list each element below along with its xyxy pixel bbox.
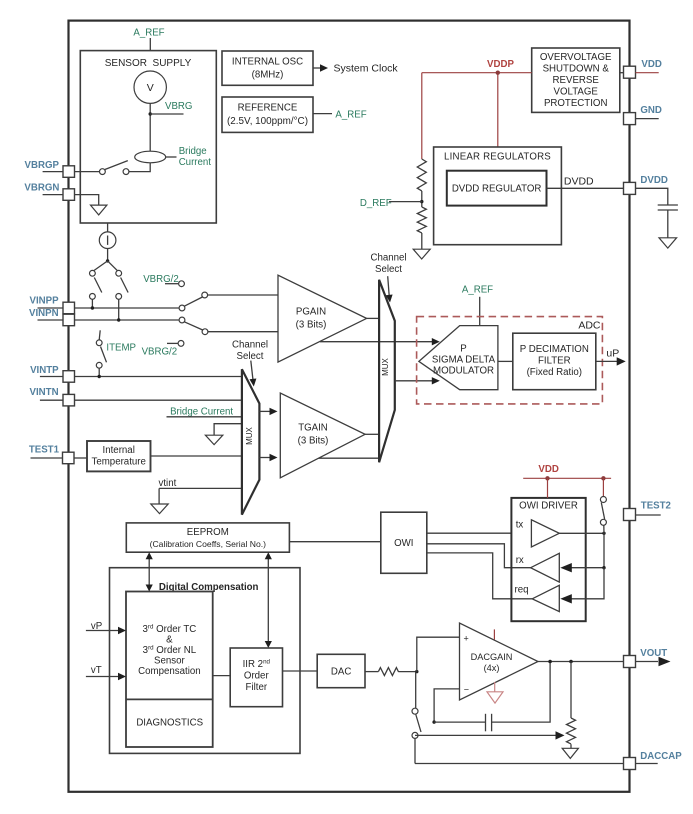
pin TEST1 xyxy=(29,444,74,463)
svg-text:DACGAIN: DACGAIN xyxy=(471,652,513,662)
block OWI xyxy=(381,512,427,573)
ground (vtint) xyxy=(151,488,168,513)
pin VINPP xyxy=(30,296,75,314)
svg-text:MUX: MUX xyxy=(245,426,254,444)
current source I xyxy=(99,223,116,249)
wire OWI tx out xyxy=(427,532,512,534)
svg-text:VINPP: VINPP xyxy=(30,296,60,307)
arrow EEPROM-IIR (double) xyxy=(265,552,272,648)
wire switch rail xyxy=(603,533,605,567)
wire EEPROM to OWI xyxy=(289,541,380,543)
svg-text:Order: Order xyxy=(244,671,270,682)
arrow EEPROM-compensation (double) xyxy=(146,552,153,591)
arrow MUX1 to TGAIN minus xyxy=(259,454,277,461)
block 3rd order compensation xyxy=(126,592,213,748)
wire system clock xyxy=(313,63,398,75)
svg-text:tx: tx xyxy=(516,520,524,531)
node VINTP junction xyxy=(98,375,101,378)
svg-text:VBRGN: VBRGN xyxy=(24,183,59,194)
switch S6 (TEST2) xyxy=(600,497,606,534)
svg-text:GND: GND xyxy=(640,105,662,116)
svg-text:uP: uP xyxy=(606,348,619,360)
wire DVDD to pin xyxy=(547,176,624,189)
svg-text:TEST1: TEST1 xyxy=(29,444,60,455)
node I split xyxy=(106,259,109,262)
svg-text:MODULATOR: MODULATOR xyxy=(433,366,494,377)
wire to PGAIN minus input xyxy=(208,331,278,333)
ground (sensor supply) xyxy=(91,205,107,215)
svg-text:VDD: VDD xyxy=(641,59,661,70)
wire modulator to filter xyxy=(498,360,513,362)
node D_REF xyxy=(360,198,424,209)
svg-text:SIGMA DELTA: SIGMA DELTA xyxy=(432,355,496,366)
wire VDD rail (OWI) xyxy=(523,464,611,498)
resistor R3 (DAC out) xyxy=(378,668,398,676)
svg-text:Bridge Current: Bridge Current xyxy=(170,406,233,417)
wire TGAIN out xyxy=(365,433,379,435)
wire PGAIN out xyxy=(367,317,380,319)
svg-text:REFERENCE: REFERENCE xyxy=(238,103,298,114)
svg-text:Sensor: Sensor xyxy=(154,656,185,667)
svg-text:P DECIMATION: P DECIMATION xyxy=(520,344,589,355)
svg-text:vT: vT xyxy=(91,665,102,676)
wire VBRGN to ground xyxy=(75,195,99,206)
svg-text:Compensation: Compensation xyxy=(138,666,200,677)
block LINEAR REGULATORS xyxy=(434,147,562,245)
svg-text:FILTER: FILTER xyxy=(538,356,571,367)
svg-text:−: − xyxy=(464,685,469,695)
node VBRG xyxy=(149,101,193,116)
pin VBRGP xyxy=(25,160,75,177)
arrow vT input xyxy=(86,665,126,680)
wire uP output xyxy=(596,348,626,366)
svg-text:Channel: Channel xyxy=(370,253,406,264)
resistor R2 (VDDP divider) xyxy=(417,207,426,233)
node VINPN junction xyxy=(117,318,120,321)
mux MUX1 (left) xyxy=(242,369,260,514)
switch S1 (VBRGP) xyxy=(100,161,129,175)
block DAC xyxy=(317,654,365,687)
node VBRG/2 upper xyxy=(143,274,184,287)
current source Bridge Current (ellipse) xyxy=(135,146,212,168)
svg-text:LINEAR REGULATORS: LINEAR REGULATORS xyxy=(444,152,551,163)
block SENSOR SUPPLY xyxy=(80,51,216,223)
voltage source V xyxy=(134,71,166,103)
svg-text:D_REF: D_REF xyxy=(360,198,392,209)
node output-feedback xyxy=(548,660,552,664)
pin VINTN xyxy=(30,387,75,406)
arrow pot wiper xyxy=(415,731,565,739)
wire IIR to DAC xyxy=(283,670,318,672)
wire tx to switch rail xyxy=(559,532,604,534)
wire R2 to ground xyxy=(421,233,423,249)
buffer tx xyxy=(516,520,560,547)
wire node to DACGAIN plus xyxy=(417,637,460,671)
node VINPP junction xyxy=(91,306,94,309)
switch S3a (PGAIN+ select) xyxy=(179,292,208,311)
wire VINTN to MUX1 xyxy=(75,399,242,401)
ground (DACGAIN, red) xyxy=(487,682,503,703)
svg-text:EEPROM: EEPROM xyxy=(187,527,229,538)
svg-text:OWI DRIVER: OWI DRIVER xyxy=(519,501,578,512)
svg-text:MUX: MUX xyxy=(381,357,390,375)
ground (pot) xyxy=(562,748,578,758)
svg-text:DAC: DAC xyxy=(331,667,351,678)
node Bridge Current tap xyxy=(167,406,242,417)
pin VINTP xyxy=(30,365,74,382)
svg-text:DVDD REGULATOR: DVDD REGULATOR xyxy=(452,184,542,195)
svg-text:System Clock: System Clock xyxy=(334,63,399,75)
svg-text:INTERNAL OSC: INTERNAL OSC xyxy=(232,57,303,68)
resistor R1 (VDDP divider) xyxy=(417,159,426,191)
wire MUX2 to modulator lower xyxy=(395,377,440,384)
pin DACCAP xyxy=(624,751,683,769)
chip outer border xyxy=(69,21,630,792)
svg-text:DVDD: DVDD xyxy=(564,176,594,188)
node A_REF top label xyxy=(133,28,164,39)
block Internal Temperature xyxy=(74,441,151,471)
wire bridge source to switch xyxy=(129,163,150,172)
pin VBRGN xyxy=(24,183,74,201)
block DIAGNOSTICS xyxy=(126,699,213,728)
svg-text:ADC: ADC xyxy=(578,319,601,331)
pin TEST2 xyxy=(624,501,671,521)
switch S2a (I to VINPP) xyxy=(90,261,108,308)
svg-text:Temperature: Temperature xyxy=(92,457,146,468)
block OVERVOLTAGE PROTECTION xyxy=(532,48,620,112)
pin VOUT xyxy=(624,648,671,668)
block REFERENCE xyxy=(222,97,313,132)
wire VINPN to selector xyxy=(75,319,180,321)
block EEPROM xyxy=(126,523,289,552)
modulator P SIGMA DELTA xyxy=(419,326,498,390)
svg-text:&: & xyxy=(166,635,173,646)
wire DACGAIN output xyxy=(538,661,624,663)
svg-text:TEST2: TEST2 xyxy=(641,501,671,512)
wire compensation to IIR xyxy=(213,675,231,677)
wire OWI rx in xyxy=(427,544,531,568)
block Digital Compensation xyxy=(110,568,301,754)
label Channel Select (left) xyxy=(232,340,268,387)
switch S5 (DACCAP) xyxy=(412,672,421,764)
svg-text:V: V xyxy=(147,82,154,94)
block IIR filter xyxy=(230,648,282,707)
capacitor C1 on DVDD xyxy=(636,188,678,238)
node rx junction xyxy=(602,566,605,569)
svg-text:PROTECTION: PROTECTION xyxy=(544,98,608,109)
svg-text:(Fixed Ratio): (Fixed Ratio) xyxy=(527,367,582,378)
node VDDP xyxy=(487,59,514,75)
svg-text:(3 Bits): (3 Bits) xyxy=(298,436,329,447)
buffer rx xyxy=(516,553,560,582)
svg-text:VOUT: VOUT xyxy=(640,648,667,659)
svg-text:DACCAP: DACCAP xyxy=(640,751,682,762)
wire DACCAP line xyxy=(415,763,624,765)
block P DECIMATION FILTER xyxy=(513,333,596,390)
wire VINPP to selector xyxy=(75,307,180,309)
svg-text:VBRG/2: VBRG/2 xyxy=(142,347,178,358)
svg-text:DVDD: DVDD xyxy=(640,175,667,186)
svg-text:Bridge: Bridge xyxy=(179,146,207,157)
svg-text:Filter: Filter xyxy=(246,682,268,693)
svg-text:PGAIN: PGAIN xyxy=(296,307,326,318)
node DAC out xyxy=(415,670,418,673)
svg-text:REVERSE: REVERSE xyxy=(553,75,600,86)
wire VDDP rail xyxy=(422,73,532,159)
svg-text:(3 Bits): (3 Bits) xyxy=(296,320,327,331)
svg-text:Internal: Internal xyxy=(103,445,135,456)
wire R3 to node xyxy=(399,671,417,673)
svg-text:VINPN: VINPN xyxy=(29,308,59,319)
wire to PGAIN plus input xyxy=(208,294,278,296)
ground (divider) xyxy=(413,249,430,259)
switch S3b (PGAIN- select) xyxy=(179,317,208,335)
block OWI DRIVER xyxy=(511,498,585,621)
ground (DVDD cap) xyxy=(659,238,677,248)
svg-text:VINTN: VINTN xyxy=(30,387,59,398)
svg-text:VBRGP: VBRGP xyxy=(25,160,60,171)
wire A_REF to sensor supply xyxy=(149,38,151,51)
svg-text:(2.5V, 100ppm/°C): (2.5V, 100ppm/°C) xyxy=(227,116,308,127)
svg-text:VDD: VDD xyxy=(538,464,558,475)
svg-text:OWI: OWI xyxy=(394,538,413,549)
wire to D_REF node xyxy=(421,191,423,207)
wire V to bridge source xyxy=(149,103,151,152)
wire DAC out xyxy=(365,671,378,673)
svg-text:SENSOR SUPPLY: SENSOR SUPPLY xyxy=(105,58,192,69)
svg-text:VOLTAGE: VOLTAGE xyxy=(554,87,599,98)
arrow MUX1 to TGAIN plus xyxy=(259,408,277,415)
svg-text:VDDP: VDDP xyxy=(487,59,514,70)
arrow vP input xyxy=(86,621,126,634)
node A_REF (modulator) xyxy=(462,284,493,325)
svg-text:Select: Select xyxy=(375,264,402,275)
pin VDD xyxy=(620,59,662,78)
svg-text:+: + xyxy=(464,634,469,644)
amplifier TGAIN xyxy=(280,393,365,478)
node vtint xyxy=(159,478,242,489)
wire reference to A_REF xyxy=(313,110,367,121)
svg-text:A_REF: A_REF xyxy=(133,28,164,39)
ground (bridge current tap) xyxy=(205,435,222,444)
svg-text:Current: Current xyxy=(179,157,212,168)
pin DVDD xyxy=(624,175,668,195)
svg-text:A_REF: A_REF xyxy=(462,284,493,295)
wire PGAIN aux to modulator xyxy=(320,338,440,345)
wire DACGAIN minus input xyxy=(434,689,459,722)
switch S2b (I to VINPN) xyxy=(108,261,129,320)
block INTERNAL OSC xyxy=(222,51,313,85)
capacitor C2 (feedback) xyxy=(434,662,550,732)
svg-text:ITEMP: ITEMP xyxy=(106,343,136,354)
wire VBRGP pin to switch xyxy=(75,171,100,173)
switch S4 ITEMP xyxy=(96,330,136,376)
label Channel Select (right) xyxy=(370,253,406,303)
svg-text:(8MHz): (8MHz) xyxy=(252,70,284,81)
svg-text:vtint: vtint xyxy=(159,478,177,489)
svg-text:OVERVOLTAGE: OVERVOLTAGE xyxy=(540,52,612,63)
potentiometer R4 xyxy=(567,662,576,749)
wire VINTP to MUX1 xyxy=(75,376,242,378)
svg-text:req: req xyxy=(515,584,529,595)
wire I to switch pair xyxy=(107,249,109,261)
svg-text:P: P xyxy=(460,344,466,355)
pin GND xyxy=(624,105,662,125)
svg-text:rx: rx xyxy=(516,555,524,566)
wire ground tap xyxy=(214,424,242,436)
wire VDD stub (DACGAIN) xyxy=(493,629,495,639)
svg-text:(Calibration Coeffs, Serial No: (Calibration Coeffs, Serial No.) xyxy=(150,539,267,549)
svg-text:SHUTDOWN &: SHUTDOWN & xyxy=(543,64,610,75)
mux MUX2 (right) xyxy=(379,280,395,463)
wire TGAIN aux xyxy=(319,457,380,459)
node VBRG/2 lower xyxy=(142,341,184,358)
arrow into req xyxy=(560,568,604,604)
svg-text:A_REF: A_REF xyxy=(335,110,366,121)
svg-text:Channel: Channel xyxy=(232,340,268,351)
node output-pot xyxy=(569,660,573,664)
svg-text:VINTP: VINTP xyxy=(30,365,59,376)
svg-text:(4x): (4x) xyxy=(484,663,500,673)
op-amp DACGAIN xyxy=(460,623,539,700)
box ADC (dashed) xyxy=(417,317,603,404)
svg-text:Select: Select xyxy=(237,351,264,362)
wire Internal Temperature to MUX1 xyxy=(151,455,242,457)
svg-text:DIAGNOSTICS: DIAGNOSTICS xyxy=(136,718,203,729)
node tx junction xyxy=(602,532,605,535)
pin VINPN xyxy=(29,308,75,326)
svg-text:VBRG: VBRG xyxy=(165,101,192,112)
block DVDD REGULATOR xyxy=(447,171,547,206)
wire OWI req in xyxy=(427,553,532,599)
arrow into rx xyxy=(560,563,604,572)
buffer req xyxy=(515,584,560,611)
node feedback xyxy=(432,720,435,723)
svg-text:TGAIN: TGAIN xyxy=(298,423,328,434)
amplifier PGAIN xyxy=(278,275,367,362)
